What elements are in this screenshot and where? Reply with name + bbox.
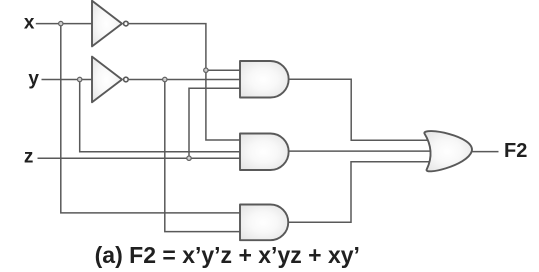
wire y' from NOT2 output to AND1 pin2	[129, 79, 240, 81]
wire z branch up to AND1 pin3	[189, 88, 240, 158]
junction on z wire	[187, 156, 191, 160]
inverter U2 bubble	[124, 77, 129, 82]
wire AND1 output to OR pin1	[289, 79, 432, 140]
wire AND3 output to OR pin3	[289, 162, 432, 223]
wire y' branch down to AND3 pin2	[165, 80, 240, 232]
AND gate A1 (x'y'z)	[240, 61, 289, 98]
wire x' from NOT1 output down to AND2 pin1	[129, 24, 240, 140]
inverter U2 (y') triangle	[92, 57, 122, 103]
wire z input to AND2 pin3	[38, 157, 241, 159]
junction on x' vertical at AND1 pin1	[204, 68, 208, 72]
wire x input	[36, 23, 92, 25]
AND gate A2 (x'yz)	[240, 134, 289, 171]
svg-text:F2: F2	[504, 140, 527, 162]
inverter U1 (x') triangle	[92, 1, 122, 47]
junction on y' wire	[163, 77, 167, 81]
wire x' stub to AND1 pin1	[206, 69, 240, 71]
svg-text:x: x	[24, 13, 35, 34]
inverter U1 bubble	[124, 21, 129, 26]
svg-text:(a) F2 = x’y’z + x’yz + xy’: (a) F2 = x’y’z + x’yz + xy’	[95, 242, 360, 268]
svg-text:y: y	[28, 69, 39, 90]
junction on x wire	[59, 21, 63, 25]
svg-text:z: z	[24, 147, 34, 168]
junction on y wire	[78, 77, 82, 81]
wire y input	[42, 79, 93, 81]
wire y branch down to AND2 pin2	[80, 80, 240, 152]
AND gate A3 (xy')	[240, 205, 288, 241]
wire OR output to F2	[468, 151, 499, 153]
OR gate O1	[424, 131, 472, 171]
wire x branch down to AND3 pin1	[61, 24, 240, 213]
wire AND2 output to OR pin2	[289, 150, 433, 152]
